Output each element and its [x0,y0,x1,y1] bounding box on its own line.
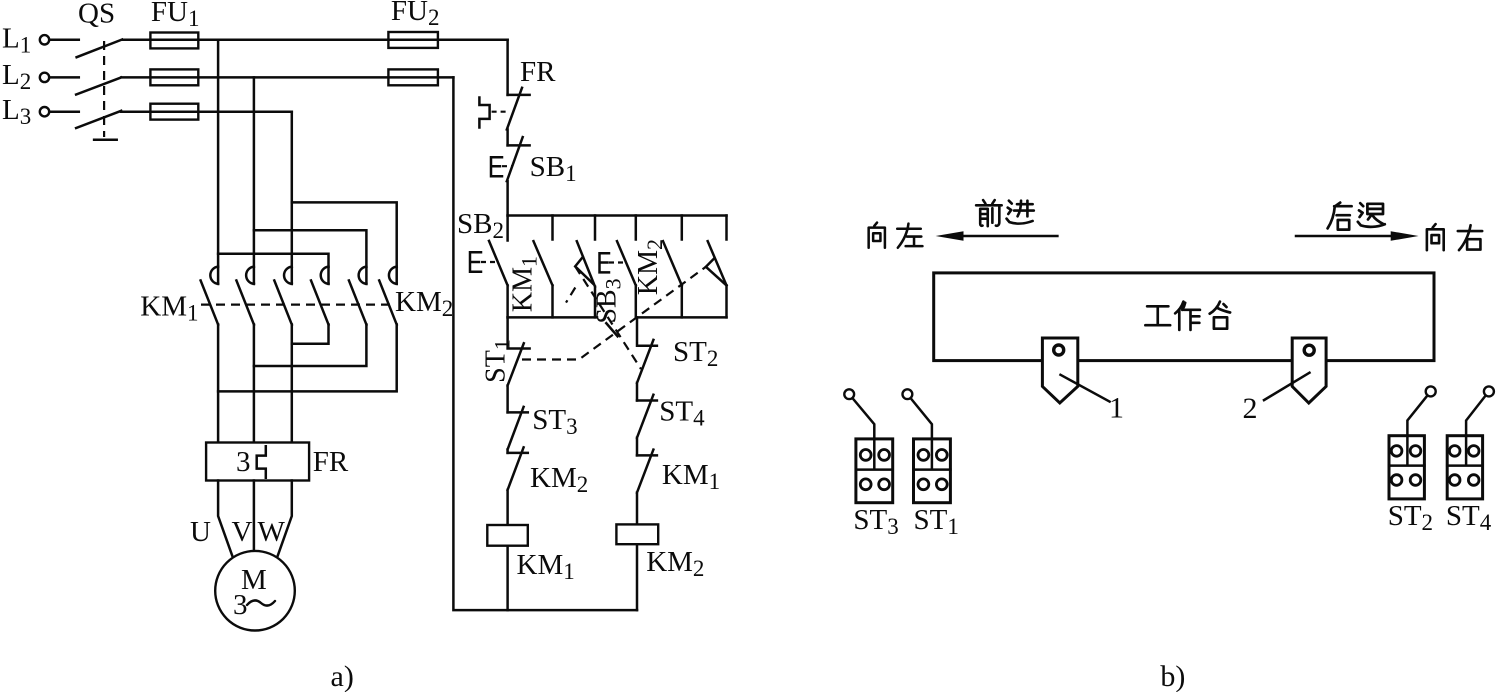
svg-text:V: V [232,516,253,548]
svg-text:FU2: FU2 [391,0,440,30]
svg-text:2: 2 [1243,392,1258,425]
svg-text:b): b) [1160,660,1185,692]
svg-text:1: 1 [1109,392,1124,425]
svg-text:U: U [190,516,211,548]
svg-text:FR: FR [313,446,349,478]
svg-text:W: W [258,516,286,548]
svg-text:3: 3 [233,589,248,621]
svg-text:3: 3 [236,446,251,478]
svg-text:QS: QS [78,0,115,29]
svg-text:FR: FR [520,56,556,88]
svg-text:a): a) [331,660,354,692]
